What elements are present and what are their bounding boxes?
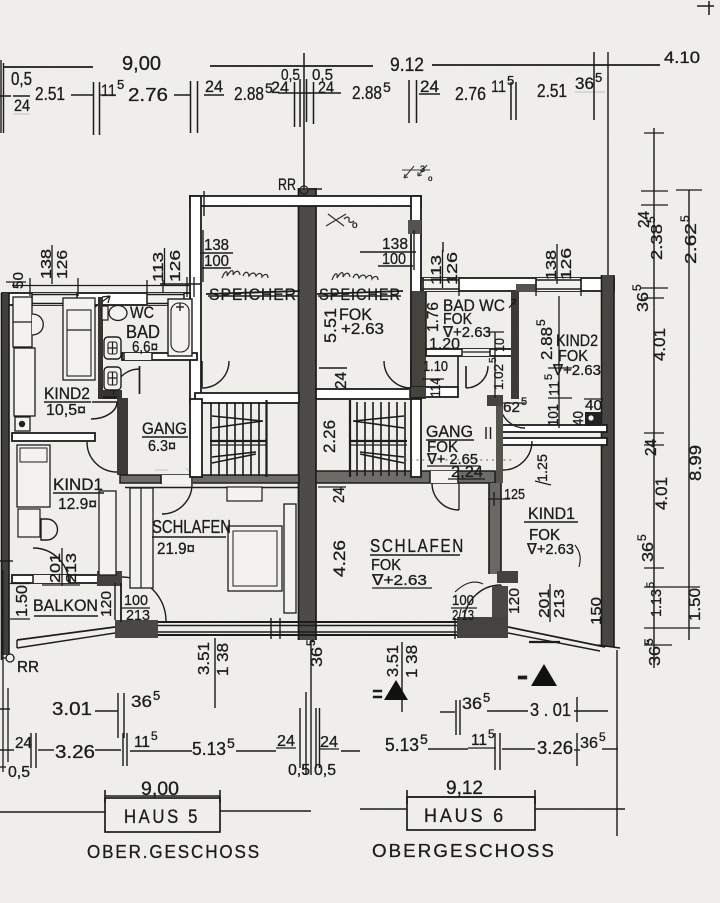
dim 3.51 / 1.38 below right unit xyxy=(401,642,403,712)
svg-text:I: I xyxy=(515,673,530,682)
junction hatch top right of speicher xyxy=(408,220,421,234)
svg-text:1.50: 1.50 xyxy=(687,588,704,621)
dim 36.5 rotated b xyxy=(635,534,657,562)
niche walls below BAD WC xyxy=(411,387,458,397)
svg-text:126: 126 xyxy=(167,250,184,282)
stub wall at plumbing bottom xyxy=(103,396,117,398)
svg-text:5: 5 xyxy=(117,77,124,92)
balcony floor slant edge xyxy=(17,627,115,640)
svg-text:101: 101 xyxy=(545,404,562,426)
handwriting squiggle left speicher xyxy=(222,271,268,278)
furniture: SCHLAFEN dresser top xyxy=(227,487,262,501)
svg-text:11: 11 xyxy=(471,732,487,749)
svg-text:HAUS 5: HAUS 5 xyxy=(124,807,200,828)
furniture: KIND2 low cabinet xyxy=(14,348,35,416)
right wall bottom tick xyxy=(598,645,620,648)
right dim inner vertical line xyxy=(653,128,655,668)
check mark arrow near WC right xyxy=(509,299,516,308)
svg-text:4.01: 4.01 xyxy=(650,328,669,361)
leader curve balcony door right xyxy=(455,582,483,592)
tick at left edge xyxy=(0,95,11,97)
svg-text:2.51: 2.51 xyxy=(35,84,65,104)
dim 115 rotated kind2 xyxy=(543,374,563,396)
BAD south wall xyxy=(122,353,197,360)
svg-text:o: o xyxy=(352,220,358,231)
svg-text:OBER.GESCHOSS: OBER.GESCHOSS xyxy=(87,842,261,862)
svg-text:5: 5 xyxy=(534,319,548,326)
svg-text:5: 5 xyxy=(488,727,495,741)
svg-text:11: 11 xyxy=(134,734,150,751)
junction hatch GANG southeast xyxy=(489,471,501,485)
svg-text:2.76: 2.76 xyxy=(455,84,486,104)
furniture: KIND2 wardrobe xyxy=(13,297,32,347)
svg-text:5.13: 5.13 xyxy=(385,735,419,755)
party wall between the two houses xyxy=(299,188,316,640)
svg-text:21.9¤: 21.9¤ xyxy=(157,539,195,558)
svg-text:9,12: 9,12 xyxy=(446,778,483,799)
SCHLAFEN right north wall xyxy=(316,471,495,483)
chain line xyxy=(71,94,93,96)
section marker triangle II xyxy=(384,680,408,700)
svg-text:4.26: 4.26 xyxy=(330,540,349,577)
door arc KIND2 right xyxy=(500,403,525,428)
svg-text:114: 114 xyxy=(427,378,443,397)
wall between GANG and KIND2/KIND1 (vertical) xyxy=(117,398,128,475)
dim 1.13.5 rotated xyxy=(645,582,665,617)
svg-text:HAUS 6: HAUS 6 xyxy=(424,806,506,827)
svg-text:1.10: 1.10 xyxy=(423,358,448,375)
svg-text:36: 36 xyxy=(635,292,652,312)
svg-text:3 . 01: 3 . 01 xyxy=(530,700,571,720)
svg-text:62: 62 xyxy=(503,399,520,416)
wall tick pair xyxy=(408,80,410,123)
svg-text:5.51: 5.51 xyxy=(321,308,340,343)
speicher right outer wall xyxy=(411,196,421,399)
fixture: wash basin 1 left xyxy=(104,337,121,359)
vertical line right of HAUS 6 xyxy=(616,650,618,836)
KIND1-BALKON wall xyxy=(12,575,100,583)
vertical line above party wall to dimension chain xyxy=(303,53,305,190)
svg-text:3.26: 3.26 xyxy=(55,742,95,762)
furniture: KIND1 wardrobe right xyxy=(99,491,116,575)
fixture: bathtub left xyxy=(168,299,192,356)
double tick 24 top xyxy=(641,190,668,192)
svg-text:KIND1: KIND1 xyxy=(53,475,103,494)
dim row2 left: 3.26 etc xyxy=(0,749,14,751)
fixture: WC toilet left xyxy=(102,306,108,320)
svg-text:36: 36 xyxy=(640,542,657,562)
double tick 24 mid xyxy=(644,432,664,434)
svg-text:0,5: 0,5 xyxy=(314,762,336,779)
svg-text:24: 24 xyxy=(15,735,32,752)
svg-text:11: 11 xyxy=(546,381,563,396)
svg-text:4.01: 4.01 xyxy=(652,477,671,510)
svg-text:5: 5 xyxy=(635,534,649,541)
right stairs treads xyxy=(349,400,351,477)
left stairs treads xyxy=(265,400,267,477)
svg-text:213: 213 xyxy=(63,553,80,583)
svg-text:12.9¤: 12.9¤ xyxy=(58,496,97,513)
svg-text:5.13: 5.13 xyxy=(192,739,226,759)
corner tick top right xyxy=(697,5,714,7)
door arc KIND1 left xyxy=(87,442,117,472)
svg-text:0,5: 0,5 xyxy=(281,67,300,84)
KIND2 right south wall lower band xyxy=(500,438,607,445)
chimney block 40x40 KIND2 right xyxy=(585,412,601,426)
svg-text:0,5: 0,5 xyxy=(11,69,32,89)
wall tick pair xyxy=(510,82,512,120)
dim 36.5 rotated below party wall xyxy=(304,639,326,667)
window in left top wall KIND2 xyxy=(32,293,77,305)
window ticks right unit xyxy=(535,278,537,296)
HAUS 6 box xyxy=(407,797,535,830)
tick pair on bottom wall xyxy=(270,618,272,639)
svg-text:RR: RR xyxy=(278,175,296,194)
wall tick xyxy=(593,52,595,120)
svg-text:2.88: 2.88 xyxy=(234,84,264,104)
svg-text:5: 5 xyxy=(420,731,428,747)
wall tick pair xyxy=(93,82,95,135)
left stairs walking line wedges xyxy=(212,416,263,428)
svg-text:24: 24 xyxy=(643,439,660,456)
fixture: wash basin 2 left xyxy=(104,367,121,390)
furniture: KIND2 chair semicircle xyxy=(32,314,43,335)
svg-text:II: II xyxy=(370,688,385,700)
bottom left edge vertical lines xyxy=(2,570,4,772)
svg-text:5: 5 xyxy=(488,357,499,363)
svg-text:120: 120 xyxy=(506,588,523,614)
dim line across bad wc door xyxy=(463,351,490,353)
dimension fraction 24 left xyxy=(13,95,30,97)
dim 2.38.5 rotated xyxy=(644,216,666,260)
window tick in speicher top wall xyxy=(203,191,205,216)
svg-text:2.88: 2.88 xyxy=(352,83,382,103)
svg-text:6,6¤: 6,6¤ xyxy=(132,339,158,356)
dim row1 right xyxy=(440,711,455,713)
right balcony threshold strip xyxy=(492,586,508,634)
KIND1 right west wall lower xyxy=(489,483,501,574)
dimension line above left top wall xyxy=(12,285,190,287)
svg-text:2.38: 2.38 xyxy=(649,224,666,260)
balcony door threshold left (schlafen) xyxy=(115,620,158,638)
window ticks xyxy=(29,278,31,296)
svg-text:1.25: 1.25 xyxy=(534,454,550,482)
svg-text:24: 24 xyxy=(318,78,334,97)
svg-text:10,5¤: 10,5¤ xyxy=(46,402,86,419)
svg-text:5: 5 xyxy=(644,216,658,223)
furniture: SCHLAFEN double bed xyxy=(228,526,282,591)
svg-text:2.51: 2.51 xyxy=(537,81,567,101)
svg-text:5: 5 xyxy=(543,374,555,380)
double tick at wall top right col xyxy=(641,287,668,289)
svg-text:1 38: 1 38 xyxy=(215,643,232,676)
svg-text:126: 126 xyxy=(558,248,575,280)
svg-text:11: 11 xyxy=(101,81,116,100)
svg-text:0,5: 0,5 xyxy=(288,762,310,779)
center wall tick cluster xyxy=(294,82,296,127)
svg-text:KIND2: KIND2 xyxy=(44,384,90,403)
svg-text:125: 125 xyxy=(504,486,525,503)
svg-text:0,5: 0,5 xyxy=(8,764,30,781)
svg-text:+2.63: +2.63 xyxy=(341,321,384,338)
svg-text:3: 3 xyxy=(420,164,425,174)
right stairs walking line wedges xyxy=(353,416,404,428)
door arc into speicher left xyxy=(201,361,203,387)
svg-text:1.02: 1.02 xyxy=(491,364,506,390)
speicher right bottom wall xyxy=(316,389,421,399)
window in left top wall BAD xyxy=(147,293,184,305)
handwriting squiggle right speicher xyxy=(332,273,378,280)
furniture: KIND2 stool with dot xyxy=(15,417,30,431)
baseline through HAUS 5 xyxy=(0,811,105,813)
svg-text:∇+2.63: ∇+2.63 xyxy=(526,541,574,558)
svg-text:9,00: 9,00 xyxy=(141,779,179,800)
svg-text:2.88: 2.88 xyxy=(539,327,556,360)
window tick right speicher wall xyxy=(442,242,444,252)
leader curve from kind1 label to door xyxy=(575,545,580,567)
svg-text:36: 36 xyxy=(575,74,594,93)
right unit bottom wall xyxy=(316,621,460,623)
svg-text:9.12: 9.12 xyxy=(390,55,424,76)
baseline through HAUS 6 xyxy=(360,808,407,810)
tick on left wall xyxy=(0,560,13,562)
svg-text:120: 120 xyxy=(98,591,115,617)
svg-text:1.20: 1.20 xyxy=(429,336,460,353)
door arc KIND1 right xyxy=(503,441,532,470)
svg-text:5: 5 xyxy=(151,729,158,743)
svg-text:SCHLAFEN: SCHLAFEN xyxy=(370,536,465,556)
RR circle bottom left xyxy=(6,654,14,662)
plumbing wall right of KIND2 xyxy=(98,297,103,398)
furniture: SCHLAFEN headboard xyxy=(284,504,296,613)
right dim outer vertical line xyxy=(688,190,690,640)
dimension line 9.00 left segment xyxy=(3,66,93,68)
door arc KIND2 left xyxy=(91,402,117,419)
svg-text:1.13: 1.13 xyxy=(648,589,665,617)
balcony door jamb block xyxy=(97,571,122,586)
right bottom threshold block xyxy=(457,617,508,638)
right stairwell enclosure xyxy=(411,399,421,477)
svg-text:1.50: 1.50 xyxy=(14,585,31,617)
handwritten mark 3,6 top xyxy=(402,165,430,178)
door arc SCHLAFEN left xyxy=(162,484,192,514)
furniture: KIND1 cabinet below bed xyxy=(18,509,40,537)
vent arrow at BAD corner left xyxy=(88,296,110,312)
BAD WC east wall (KIND2 west) xyxy=(511,291,519,399)
svg-text:126: 126 xyxy=(54,250,71,279)
svg-text:10: 10 xyxy=(491,338,507,352)
BAD WC west wall thick band xyxy=(411,291,426,399)
KIND2 right south wall upper band xyxy=(497,425,607,432)
svg-text:2.62: 2.62 xyxy=(683,223,700,264)
chain line xyxy=(174,94,190,96)
interior dim line KIND2 right xyxy=(558,296,560,428)
dim 36.5 rotated right col a xyxy=(630,284,652,312)
wall below KIND1 right side vertical xyxy=(120,583,122,622)
furniture: KIND2 bed xyxy=(63,298,95,380)
HAUS 5 box xyxy=(105,798,220,832)
left unit bottom wall xyxy=(158,621,316,623)
door arc BAD WC right xyxy=(465,366,467,388)
svg-text:3.51: 3.51 xyxy=(385,645,402,677)
svg-text:2/13: 2/13 xyxy=(452,607,474,624)
svg-text:1 38: 1 38 xyxy=(404,645,421,678)
svg-text:24: 24 xyxy=(333,372,350,389)
door arc into speicher right xyxy=(410,361,412,387)
svg-text:4.10: 4.10 xyxy=(664,48,700,67)
dim 36.5 rotated c xyxy=(642,638,664,666)
door arc schlafen right xyxy=(432,483,459,510)
left stairwell enclosure xyxy=(190,399,202,477)
double tick lower xyxy=(644,567,664,569)
svg-text:OBERGESCHOSS: OBERGESCHOSS xyxy=(372,841,556,861)
svg-text:5: 5 xyxy=(678,215,692,222)
balcony door arc right schlafen xyxy=(500,585,502,622)
left edge vertical dimension line xyxy=(0,60,2,133)
section marker triangle I xyxy=(531,664,557,686)
window in right top wall BAD WC xyxy=(423,278,459,291)
svg-text:5: 5 xyxy=(227,735,235,751)
svg-text:1.76: 1.76 xyxy=(425,302,442,332)
svg-text:3.51: 3.51 xyxy=(196,642,213,675)
right balcony slant edge xyxy=(508,627,605,647)
tick pair at speicher corner xyxy=(186,277,188,297)
right exterior wall xyxy=(602,275,614,647)
svg-text:36: 36 xyxy=(131,692,152,711)
svg-text:5: 5 xyxy=(153,688,160,703)
svg-text:BALKON: BALKON xyxy=(33,596,98,615)
svg-text:213: 213 xyxy=(126,607,150,624)
svg-text:138: 138 xyxy=(204,237,229,254)
handwritten X mark in right speicher xyxy=(326,214,354,226)
svg-text:24: 24 xyxy=(331,487,348,503)
svg-text:8.99: 8.99 xyxy=(686,445,705,481)
door jamb ticks corridor xyxy=(485,427,487,439)
svg-text:50: 50 xyxy=(10,272,27,289)
corridor ceiling break dotted line xyxy=(405,459,513,461)
svg-text:5: 5 xyxy=(483,690,490,705)
svg-text:5: 5 xyxy=(645,582,657,588)
plumbing wall lower solid block xyxy=(98,390,122,399)
svg-text:2.26: 2.26 xyxy=(320,420,339,453)
BAD WC south wall right xyxy=(426,349,516,356)
threshold block below wall xyxy=(497,571,518,583)
tick on right bottom wall xyxy=(454,618,456,639)
furniture: SCHLAFEN wardrobe left xyxy=(130,488,153,588)
svg-text:11: 11 xyxy=(491,77,506,96)
speicher left bottom wall xyxy=(195,393,299,403)
vertical line right unit top to chain xyxy=(607,52,609,275)
svg-text:5: 5 xyxy=(521,396,527,408)
door arc BAD left xyxy=(139,366,141,394)
svg-text:36: 36 xyxy=(647,646,664,666)
svg-text:36: 36 xyxy=(462,694,482,713)
door tick marks schlafen door xyxy=(155,469,168,471)
dim 1.02.5 and 10 rotated near bad wc door xyxy=(491,338,507,352)
GANG-SCHLAFEN wall left unit xyxy=(120,475,299,483)
svg-text:3.01: 3.01 xyxy=(52,699,92,719)
dim 3.51 / 1.38 below left unit xyxy=(214,638,216,708)
tick pair row1 left xyxy=(117,693,119,738)
svg-text:213: 213 xyxy=(551,589,568,618)
svg-text:40: 40 xyxy=(570,411,587,426)
svg-text:24: 24 xyxy=(14,96,30,115)
KIND1 right west wall upper xyxy=(496,400,503,483)
speicher block top wall xyxy=(190,196,421,206)
junction hatch right of KIND2 window xyxy=(516,284,536,292)
svg-text:24: 24 xyxy=(420,77,439,96)
dim 2.62.5 rotated xyxy=(678,215,700,264)
svg-text:SPEICHER: SPEICHER xyxy=(319,285,401,304)
left unit top wall xyxy=(2,293,190,305)
svg-text:5: 5 xyxy=(599,730,606,744)
svg-text:5: 5 xyxy=(595,70,602,85)
svg-text:WC: WC xyxy=(130,303,154,322)
svg-text:SCHLAFEN: SCHLAFEN xyxy=(152,517,231,537)
svg-text:GANG: GANG xyxy=(142,419,187,438)
svg-text:2.76: 2.76 xyxy=(128,85,168,105)
left exterior wall xyxy=(2,293,9,655)
tick top inner xyxy=(644,132,664,134)
svg-text:3.26: 3.26 xyxy=(537,738,573,758)
svg-text:5: 5 xyxy=(383,79,391,95)
wall stub above KIND2 right door xyxy=(487,395,503,406)
dimension line 4.10 xyxy=(432,64,660,66)
junction hatch bottom right of speicher xyxy=(409,387,423,399)
dim row1 left: 3.01 xyxy=(0,708,10,710)
wall tick pair xyxy=(190,81,192,133)
RR circle mark xyxy=(300,186,308,194)
svg-text:6.3¤: 6.3¤ xyxy=(148,438,176,455)
svg-text:5: 5 xyxy=(630,284,644,291)
svg-text:KIND1: KIND1 xyxy=(528,504,575,523)
svg-text:24: 24 xyxy=(205,77,223,96)
svg-text:150: 150 xyxy=(588,597,605,625)
window in right top wall KIND2 xyxy=(536,278,581,291)
ticks bottom right col xyxy=(644,627,700,629)
door arc schlafen balcony door xyxy=(122,577,166,621)
dim 2.88.5 rotated kind2 xyxy=(534,319,556,360)
KIND2/KIND1 divider wall xyxy=(12,433,95,441)
svg-text:9,00: 9,00 xyxy=(122,53,161,75)
door arc balcony from KIND1 xyxy=(33,548,69,584)
speicher left outer wall xyxy=(190,196,201,403)
bottom center tick cluster xyxy=(299,708,301,768)
svg-text:126: 126 xyxy=(444,252,461,285)
svg-text:RR: RR xyxy=(17,659,39,676)
svg-text:SPEICHER: SPEICHER xyxy=(209,285,297,304)
svg-text:∇+2.63: ∇+2.63 xyxy=(371,572,427,589)
svg-text:36: 36 xyxy=(580,735,598,752)
dimension line 9.00 right segment xyxy=(210,65,373,67)
furniture: KIND1 bed xyxy=(17,445,50,507)
furniture: KIND1 desk chair D xyxy=(41,519,58,540)
tick outer top xyxy=(676,189,702,191)
right unit top wall xyxy=(421,278,614,291)
svg-text:o: o xyxy=(428,174,433,183)
